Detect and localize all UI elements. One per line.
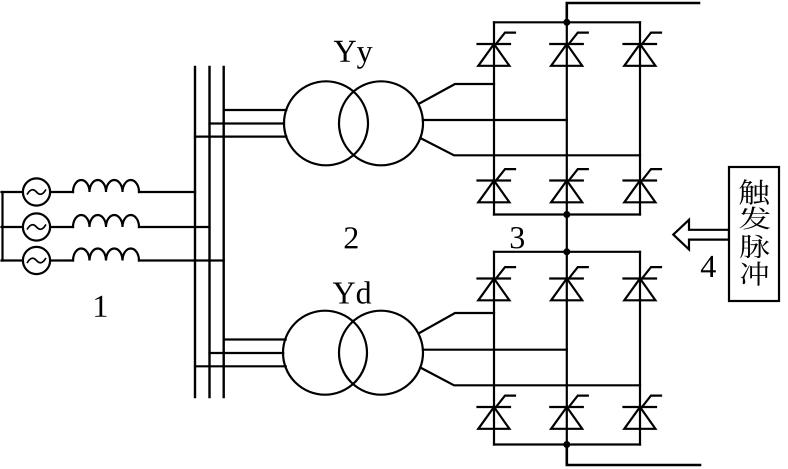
wire: stub to source 1 bbox=[2, 191, 23, 193]
AC source G2 bbox=[23, 213, 50, 240]
thyristor VT2 bbox=[550, 33, 588, 66]
wire: busbar to T2 primary, phase 2 bbox=[210, 352, 284, 354]
wire: inductor L3 to busbar c bbox=[139, 259, 224, 261]
inductor L3 bbox=[73, 249, 139, 261]
arrow: trigger pulses into bridges bbox=[673, 220, 729, 250]
thyristor VT1 bbox=[478, 33, 516, 66]
wire: T2 secondary to bridge 2 phase c bbox=[420, 368, 640, 386]
label Yy (transformer T1 connection) bbox=[334, 41, 373, 69]
thyristor VT4 bbox=[478, 169, 516, 202]
thyristor VT5 bbox=[550, 169, 588, 202]
wire: bridge 1 bottom rail bbox=[494, 213, 640, 215]
wire: bridge 2 leg 3 bbox=[639, 252, 641, 445]
wire: busbar to T2 primary, phase 3 bbox=[195, 365, 286, 367]
wire: bridge 2 leg 2 bbox=[566, 252, 568, 445]
wire: bridge 1 top rail bbox=[494, 21, 640, 23]
inductor L1 bbox=[73, 180, 139, 192]
wire: busbar to T2 primary, phase 1 bbox=[224, 338, 286, 340]
wire: T1 secondary to bridge 1 phase b bbox=[423, 119, 567, 121]
busbar a bbox=[194, 67, 196, 397]
transformer T1 (Yy) primary winding bbox=[284, 81, 368, 165]
thyristor VT7 bbox=[478, 267, 516, 300]
junction: bridge 1 positive node bbox=[563, 19, 570, 26]
thyristor VT8 bbox=[550, 267, 588, 300]
wire: source 1 to inductor L1 bbox=[50, 191, 73, 193]
wire: DC negative output (bottom) bbox=[567, 445, 700, 466]
wire: bridge 1 leg 1 bbox=[493, 22, 495, 214]
transformer T2 (Yd) secondary winding bbox=[339, 311, 423, 395]
wire: busbar to T1 primary, phase 3 bbox=[195, 136, 286, 138]
junction: bridge 2 positive node bbox=[563, 248, 570, 255]
wire: series link between bridge 1 and bridge 2 bbox=[566, 215, 568, 252]
wire: DC positive output (top) bbox=[567, 3, 699, 22]
busbar c bbox=[222, 67, 224, 397]
label 4 (trigger unit) bbox=[701, 256, 716, 277]
wire: busbar to T1 primary, phase 2 bbox=[210, 122, 285, 124]
wire: source 2 to inductor L2 bbox=[50, 226, 73, 228]
AC source G3 bbox=[23, 247, 50, 274]
label 3 (rectifier bridges) bbox=[511, 227, 524, 249]
thyristor VT3 bbox=[624, 33, 662, 66]
junction: bridge 2 negative node bbox=[563, 441, 570, 448]
wire: bridge 2 leg 1 bbox=[493, 252, 495, 445]
transformer T2 (Yd) primary winding bbox=[283, 311, 367, 395]
transformer T1 (Yy) secondary winding bbox=[339, 81, 423, 165]
label Yd (transformer T2 connection) bbox=[333, 281, 371, 304]
thyristor VT9 bbox=[624, 267, 662, 300]
AC source G1 bbox=[23, 178, 50, 205]
wire: T1 secondary to bridge 1 phase a bbox=[419, 84, 495, 104]
wire: inductor L1 to busbar a bbox=[139, 191, 195, 193]
thyristor VT10 bbox=[478, 396, 516, 429]
wire: bridge 1 leg 3 bbox=[639, 22, 641, 214]
thyristor VT6 bbox=[624, 169, 662, 202]
wire: bridge 2 top rail bbox=[494, 251, 640, 253]
wire: T1 secondary to bridge 1 phase c bbox=[420, 138, 640, 155]
busbar b bbox=[208, 67, 210, 397]
wire: T2 secondary to bridge 2 phase b bbox=[423, 349, 567, 351]
wire: source 3 to inductor L3 bbox=[50, 259, 73, 261]
label 1 (AC supply) bbox=[95, 296, 106, 317]
wire: inductor L2 to busbar b bbox=[139, 226, 210, 228]
trigger-pulse generator box (4) bbox=[729, 167, 779, 301]
wire: busbar to T1 primary, phase 1 bbox=[224, 109, 287, 111]
thyristor VT12 bbox=[624, 396, 662, 429]
wire: stub to source 3 bbox=[2, 259, 23, 261]
wire: bridge 2 bottom rail bbox=[494, 443, 640, 445]
inductor L2 bbox=[73, 215, 139, 227]
label 2 (transformers) bbox=[345, 227, 358, 248]
wire: bridge 1 leg 2 bbox=[566, 22, 568, 214]
junction: bridge 1 negative node bbox=[563, 211, 570, 218]
label 触发脉冲 (trigger pulse) bbox=[739, 179, 770, 286]
wire: stub to source 2 bbox=[2, 226, 23, 228]
wire: left vertical connecting the three AC sources bbox=[1, 192, 3, 261]
thyristor VT11 bbox=[550, 396, 588, 429]
wire: T2 secondary to bridge 2 phase a bbox=[419, 313, 495, 334]
